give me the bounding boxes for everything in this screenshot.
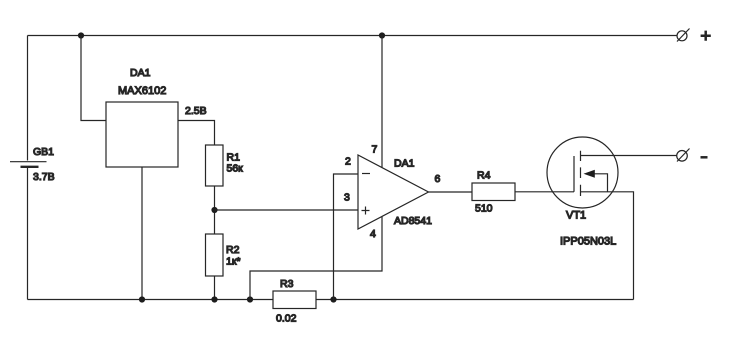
voltage reference DA1 MAX6102 body (106, 102, 178, 167)
svg-text:2.5В: 2.5В (185, 105, 207, 117)
wire from top rail down to DA1 input (81, 36, 106, 121)
wire divider junction to op-amp pin 3 (215, 209, 359, 211)
terminal minus sign label (701, 156, 708, 159)
svg-text:3: 3 (344, 192, 350, 204)
node R3 right sense junction (330, 296, 336, 302)
wire R3 right sense to op-amp pin 2 (334, 174, 359, 300)
wire DA1 ground to bottom rail (141, 167, 143, 300)
node R2 ground junction (211, 296, 217, 302)
svg-text:2: 2 (345, 156, 351, 168)
wire R1 bottom to R2 top (214, 186, 216, 234)
terminal plus output circle (677, 31, 687, 41)
svg-text:4: 4 (370, 228, 376, 240)
resistor R3 body (273, 291, 316, 309)
svg-text:56к: 56к (227, 163, 244, 175)
svg-text:R2: R2 (226, 244, 240, 256)
svg-text:1к*: 1к* (226, 256, 241, 268)
battery GB1 negative plate (21, 166, 39, 168)
svg-text:510: 510 (475, 203, 493, 215)
wire left vertical from top rail to battery (27, 36, 29, 161)
svg-text:3.7В: 3.7В (33, 171, 55, 183)
op-amp U1 DA1 triangle body (358, 155, 429, 229)
wire top rail to op-amp pin 7 (381, 36, 383, 169)
wire DA1 output 2.5V to R1 (178, 121, 215, 146)
svg-text:R4: R4 (477, 170, 491, 182)
terminal plus slash (677, 29, 690, 42)
wire top rail (28, 35, 677, 37)
svg-text:IPP05N03L: IPP05N03L (560, 236, 616, 248)
svg-text:7: 7 (372, 144, 378, 156)
op-amp inverting input minus sign (362, 173, 370, 175)
wire battery negative to bottom rail (27, 168, 29, 300)
node DA1 ground junction (139, 296, 145, 302)
transistor VT1 body arrow (594, 174, 608, 192)
op-amp non-inverting input plus sign (362, 207, 370, 215)
battery GB1 positive plate (10, 161, 47, 163)
svg-text:0.02: 0.02 (276, 313, 297, 325)
node junction on top rail feeding DA1 (78, 32, 84, 38)
resistor R2 body (206, 234, 224, 276)
wire R3 left sense to op-amp pin 4 (250, 217, 382, 300)
terminal minus slash (677, 149, 690, 162)
svg-text:VT1: VT1 (566, 210, 586, 222)
svg-text:DA1: DA1 (394, 158, 415, 170)
svg-text:AD8541: AD8541 (394, 215, 432, 227)
svg-text:DA1: DA1 (130, 67, 151, 79)
transistor VT1 source lead (581, 192, 634, 300)
transistor VT1 channel segments (580, 151, 582, 196)
wire op-amp output to R4 (429, 191, 473, 193)
transistor VT1 drain lead (581, 155, 677, 157)
svg-text:MAX6102: MAX6102 (118, 85, 166, 97)
resistor R1 body (206, 145, 224, 186)
terminal minus output circle (677, 151, 688, 162)
svg-text:GB1: GB1 (33, 146, 54, 158)
node junction on top rail feeding op-amp supply (379, 32, 385, 38)
node divider midpoint junction (211, 207, 217, 213)
transistor VT1 body circle (547, 137, 618, 208)
node R3 left sense junction (247, 296, 253, 302)
terminal plus sign label (701, 31, 711, 41)
wire bottom rail right section (316, 299, 634, 301)
wire R4 to transistor gate (515, 191, 574, 193)
svg-text:6: 6 (435, 173, 441, 185)
wire R2 bottom to bottom rail (214, 276, 216, 300)
transistor VT1 gate bar (573, 156, 575, 192)
wire bottom rail left section (28, 299, 274, 301)
svg-text:R3: R3 (280, 278, 294, 290)
resistor R4 body (472, 183, 515, 201)
